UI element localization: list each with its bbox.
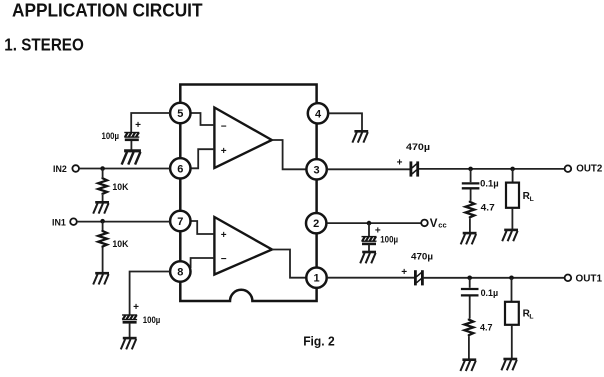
wire A1 output to pin3: [272, 140, 307, 169]
wire junction to C3: [368, 223, 370, 236]
svg-text:470µ: 470µ: [411, 252, 433, 262]
wire C6 to OUT1 terminal: [424, 277, 565, 279]
wire RL to ground (lower): [511, 325, 513, 358]
svg-text:10K: 10K: [112, 182, 128, 192]
ground (below C1): [122, 151, 141, 165]
resistor 10K (input bias, IN2): [98, 177, 129, 195]
wire A2 output to pin1: [272, 250, 306, 278]
terminal Vcc: [421, 218, 446, 230]
wire C7 to R4: [469, 297, 471, 319]
IC outline U1 (8-pin package with notch): [180, 85, 316, 302]
wire junction to R2: [102, 221, 104, 230]
wire pin1 to C6: [327, 277, 414, 279]
wire junction to RL (lower): [511, 278, 513, 302]
capacitor C3 100u (Vcc decoupling): [362, 225, 399, 244]
capacitor C7 0.1u (zobel, OUT1): [461, 288, 498, 298]
svg-text:2: 2: [313, 218, 319, 230]
svg-text:−: −: [221, 254, 227, 265]
svg-text:470µ: 470µ: [406, 142, 430, 152]
pin 5: [170, 103, 190, 123]
terminal IN1: [52, 217, 77, 228]
wire pin3 to C4: [327, 168, 410, 170]
svg-text:−: −: [221, 121, 227, 132]
resistor RL (load, OUT2): [506, 183, 534, 208]
wire C5 to R3: [470, 189, 472, 200]
node junction Vcc/C3: [367, 221, 372, 226]
svg-text:8: 8: [177, 267, 183, 279]
svg-text:V: V: [430, 218, 438, 230]
wire R2 to ground: [102, 248, 104, 273]
wire pin2 to Vcc terminal: [327, 222, 421, 224]
svg-text:4.7: 4.7: [481, 202, 495, 213]
svg-text:100µ: 100µ: [143, 315, 161, 325]
svg-text:+: +: [135, 120, 141, 131]
svg-text:3: 3: [314, 164, 320, 176]
svg-text:1: 1: [313, 273, 319, 285]
capacitor C2 100u (pin8 decoupling): [122, 302, 160, 325]
resistor 10K (input bias, IN1): [98, 230, 129, 249]
pin 8: [170, 261, 190, 281]
terminal OUT1: [565, 274, 603, 285]
wire pin7 to A2 non-inverting input: [191, 221, 215, 234]
wire C3 to ground: [368, 245, 370, 252]
ground (below R4): [460, 360, 476, 371]
node junction OUT1/RL: [509, 276, 514, 281]
wire pin6 to A1 non-inverting input: [191, 149, 215, 168]
wire junction to C5: [470, 169, 472, 182]
pin 2: [306, 213, 326, 233]
wire pin8 to A2 inverting input: [191, 258, 215, 268]
svg-text:APPLICATION CIRCUIT: APPLICATION CIRCUIT: [12, 0, 203, 20]
wire C1 to ground: [130, 141, 132, 151]
op-amp A1 (upper): [214, 108, 271, 169]
node junction OUT2/RL: [510, 167, 515, 172]
wire IN2 to pin6: [79, 168, 170, 170]
svg-text:OUT1: OUT1: [576, 274, 603, 285]
capacitor C4 470u (OUT2 coupling): [397, 142, 430, 177]
capacitor C1 100u (pin5 decoupling): [102, 120, 142, 141]
terminal OUT2: [565, 164, 603, 175]
resistor 4.7 (zobel, OUT2): [466, 201, 495, 219]
wire pin4 to ground: [329, 113, 362, 130]
svg-text:10K: 10K: [112, 239, 128, 249]
svg-text:1. STEREO: 1. STEREO: [4, 35, 84, 55]
wire pin5 to C1: [131, 113, 170, 132]
wire C4 to OUT2 terminal: [419, 168, 565, 170]
wire pin8 to C2: [130, 272, 170, 315]
ground (below R2): [93, 273, 109, 284]
wire RL to ground (upper): [511, 208, 513, 229]
svg-text:IN1: IN1: [52, 217, 66, 228]
svg-text:Fig. 2: Fig. 2: [303, 333, 335, 348]
ground (below RL lower): [501, 359, 517, 370]
pin 6: [170, 158, 190, 178]
svg-text:L: L: [530, 196, 534, 203]
ground (pin4): [352, 131, 368, 142]
node junction OUT2/C5: [468, 167, 473, 172]
capacitor C6 470u (OUT1 coupling): [401, 252, 433, 286]
svg-text:100µ: 100µ: [102, 131, 120, 141]
node junction IN2/R1: [100, 166, 105, 171]
svg-text:7: 7: [177, 216, 183, 228]
pin 1: [306, 268, 326, 288]
pin 4: [308, 103, 328, 123]
terminal IN2: [53, 164, 79, 175]
svg-text:L: L: [529, 313, 533, 320]
wire junction to C7: [469, 278, 471, 288]
resistor 4.7 (zobel, OUT1): [465, 319, 493, 337]
svg-text:0.1µ: 0.1µ: [481, 288, 499, 298]
svg-text:+: +: [221, 146, 227, 157]
svg-text:4: 4: [315, 108, 322, 120]
wire IN1 to pin7: [77, 221, 170, 223]
svg-text:0.1µ: 0.1µ: [480, 179, 499, 189]
svg-text:5: 5: [177, 108, 183, 120]
svg-text:+: +: [401, 267, 407, 278]
ground (below C2): [121, 338, 137, 349]
ground (below RL upper): [502, 230, 518, 241]
ground (below C3): [360, 252, 376, 263]
node junction IN1/R2: [100, 219, 105, 224]
wire junction to RL (upper): [512, 169, 514, 183]
wire C2 to ground: [129, 323, 131, 337]
node junction OUT1/C7: [467, 276, 472, 281]
wire junction to R1: [102, 169, 104, 178]
ground (below R1): [93, 202, 109, 213]
pin 3: [306, 159, 326, 179]
svg-text:100µ: 100µ: [380, 235, 398, 245]
wire pin5 to A1 inverting input: [191, 113, 215, 125]
wire R1 to ground: [102, 195, 104, 202]
resistor RL (load, OUT1): [505, 302, 534, 325]
svg-text:+: +: [397, 158, 403, 169]
svg-text:6: 6: [177, 163, 183, 175]
svg-text:4.7: 4.7: [480, 322, 493, 333]
capacitor C5 0.1u (zobel, OUT2): [462, 179, 499, 189]
svg-text:+: +: [133, 302, 139, 313]
op-amp A2 (lower): [214, 217, 272, 275]
svg-text:OUT2: OUT2: [576, 164, 603, 175]
pin 7: [170, 211, 190, 231]
svg-text:+: +: [221, 230, 227, 241]
svg-text:cc: cc: [438, 220, 446, 229]
wire R4 to ground: [468, 336, 470, 359]
svg-text:IN2: IN2: [53, 164, 67, 175]
wire R3 to ground: [469, 218, 471, 232]
ground (below R3): [461, 233, 477, 244]
